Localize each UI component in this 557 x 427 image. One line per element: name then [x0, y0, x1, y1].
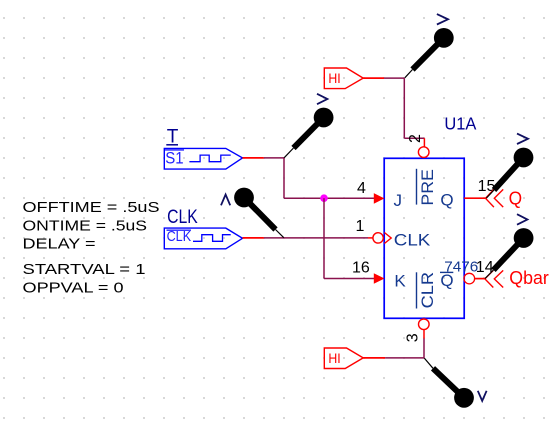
- wire S1 to corner: [264, 157, 284, 159]
- voltage probe on Qbar net: [485, 228, 533, 278]
- digital stimulus CLK: [164, 228, 242, 249]
- svg-text:U1A: U1A: [444, 114, 476, 134]
- voltage probe on CLK wire: [234, 188, 284, 238]
- wire horizontal to J: [284, 197, 375, 199]
- pin name PRE rotated with overline: [417, 169, 438, 206]
- digital stimulus S1: [164, 148, 242, 169]
- J input arrow: [374, 193, 385, 204]
- clock input bubble pin 1: [373, 233, 383, 243]
- wire bottom HI to corner: [385, 357, 424, 359]
- marker V rotated (Qbar probe): [517, 214, 527, 225]
- K input arrow: [374, 273, 385, 284]
- CLR bubble pin 3: [419, 319, 430, 330]
- svg-text:PRE: PRE: [418, 169, 437, 206]
- op U1A flip-flop box: [384, 158, 464, 318]
- pin stub of top HI: [363, 77, 384, 79]
- svg-text:OPPVAL = 0: OPPVAL = 0: [23, 280, 124, 297]
- HI symbol top: [324, 68, 363, 89]
- svg-text:ONTIME = .5uS: ONTIME = .5uS: [23, 218, 148, 235]
- svg-text:CLK: CLK: [167, 229, 192, 245]
- svg-text:Q: Q: [509, 189, 522, 209]
- pin name Qbar with overline: [440, 271, 454, 290]
- marker V rotated (PRE probe): [437, 14, 448, 24]
- label T (stimulus name of S1): [166, 127, 179, 148]
- marker V rotated (Q probe): [517, 134, 528, 144]
- pin stub CLR: [423, 330, 425, 339]
- voltage probe on CLR net: [424, 358, 474, 408]
- Qbar bubble pin 14: [464, 273, 475, 284]
- svg-text:16: 16: [352, 259, 370, 276]
- svg-text:Q: Q: [440, 271, 453, 290]
- pin stub of bottom HI: [363, 357, 385, 359]
- svg-text:CLK: CLK: [394, 230, 431, 249]
- voltage probe on PRE net: [405, 28, 454, 78]
- marker V rotated (S1 probe): [317, 94, 327, 104]
- HI symbol bottom: [324, 348, 363, 369]
- pin stub Q output: [464, 197, 485, 199]
- pin stub of S1: [243, 157, 264, 159]
- wire vertical up to CLR: [423, 339, 425, 358]
- svg-text:2: 2: [407, 134, 424, 143]
- net label marker Qbar: [485, 267, 549, 288]
- wire vertical junction to K: [323, 198, 325, 278]
- svg-text:CLR: CLR: [418, 272, 437, 309]
- pin stub PRE: [423, 138, 425, 147]
- svg-text:CLK: CLK: [167, 207, 198, 228]
- svg-text:J: J: [394, 191, 403, 210]
- svg-text:Q: Q: [440, 191, 453, 210]
- voltage probe on S1 wire: [284, 108, 333, 158]
- wire vertical down to PRE: [403, 78, 405, 138]
- svg-text:Qbar: Qbar: [509, 267, 549, 288]
- net label marker Q: [486, 189, 523, 209]
- svg-text:15: 15: [478, 178, 496, 195]
- wire CLK to CLK pin: [264, 237, 368, 239]
- pin stub of CLK: [243, 237, 264, 239]
- svg-text:K: K: [394, 271, 406, 290]
- junction node: [320, 194, 328, 202]
- svg-text:3: 3: [405, 333, 422, 342]
- svg-text:DELAY =: DELAY =: [23, 235, 96, 252]
- svg-text:HI: HI: [328, 70, 340, 86]
- voltage probe on Q net: [486, 148, 533, 199]
- wire horizontal to K: [324, 278, 375, 280]
- wire vertical S1 down: [283, 158, 285, 198]
- svg-text:S1: S1: [165, 148, 183, 167]
- svg-text:4: 4: [357, 180, 366, 197]
- svg-text:STARTVAL = 1: STARTVAL = 1: [23, 261, 146, 278]
- marker V rotated (CLK probe): [221, 195, 230, 206]
- PRE bubble pin 2: [418, 147, 429, 158]
- svg-text:OFFTIME = .5uS: OFFTIME = .5uS: [23, 199, 160, 216]
- marker V (CLR probe): [478, 391, 487, 401]
- wire horizontal to PRE pin: [404, 137, 424, 139]
- wire top HI to corner: [384, 77, 404, 79]
- pin name CLR rotated with overline: [417, 272, 438, 309]
- pin stub Qbar output: [475, 278, 485, 280]
- svg-text:HI: HI: [328, 350, 340, 366]
- svg-text:1: 1: [356, 218, 365, 235]
